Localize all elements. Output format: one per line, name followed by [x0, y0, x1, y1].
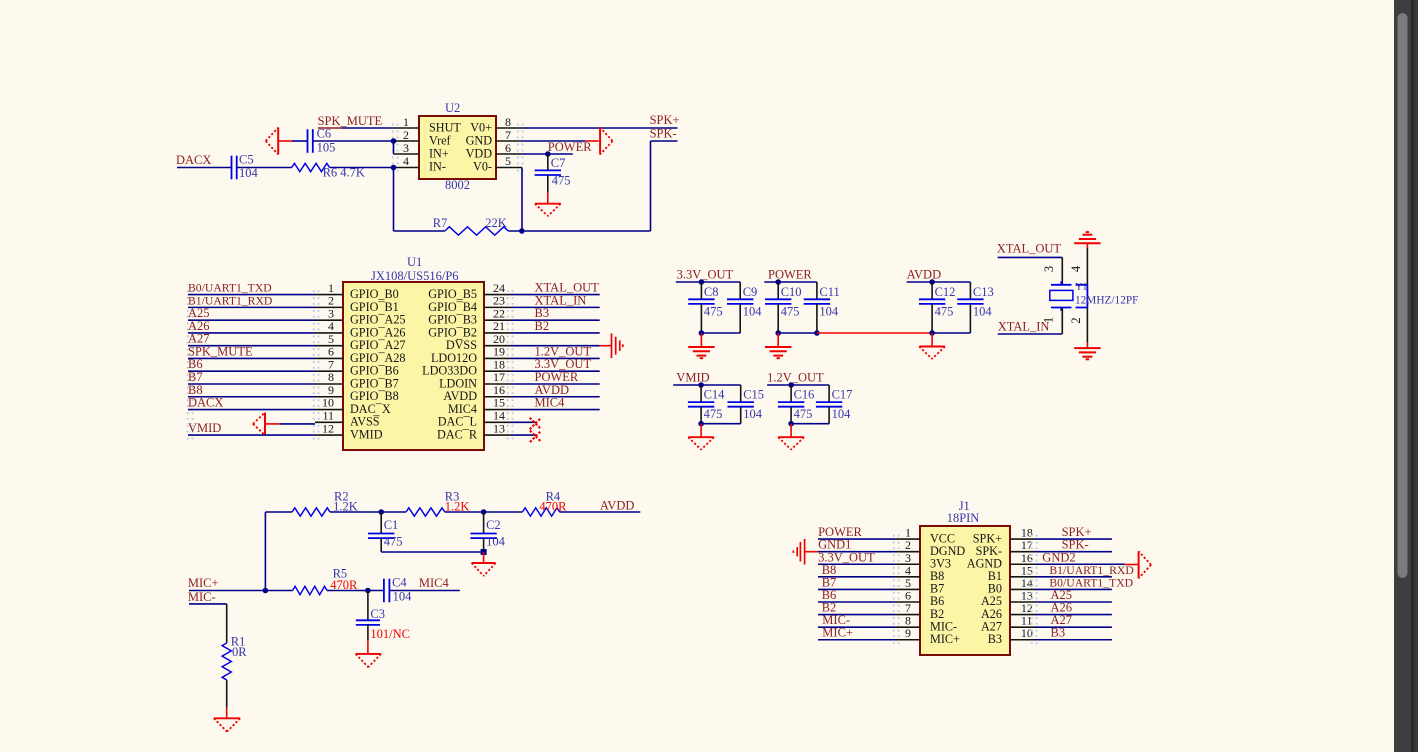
wire 3.3V_OUT rail [676, 281, 740, 283]
capacitor C12 [919, 282, 945, 333]
svg-text:C11: C11 [819, 285, 839, 299]
junction C14 bottom [698, 421, 704, 427]
svg-text:104: 104 [393, 590, 413, 604]
ground (earth below C10) [765, 333, 791, 358]
junction C8 bottom [699, 330, 705, 336]
svg-text:8002: 8002 [445, 178, 470, 192]
ground (earth below C8) [688, 333, 714, 358]
svg-text:VDD: VDD [466, 147, 493, 161]
resistor R5 [293, 586, 327, 594]
wire feedback up to SPK- [650, 141, 652, 231]
junction C11 bottom [814, 330, 820, 336]
ground (C7 triangle) [535, 192, 561, 216]
U2 left pin names [429, 121, 461, 174]
wire C1 to C2 bottom rail [381, 551, 483, 553]
wire POWER rail [764, 281, 817, 283]
no-connect X (U1 pin13) [530, 431, 542, 443]
svg-text:4: 4 [1069, 265, 1083, 272]
svg-text:10: 10 [1021, 626, 1033, 640]
wire R7 to SPK- feedback [508, 230, 650, 232]
svg-text:C9: C9 [743, 285, 758, 299]
svg-text:104: 104 [819, 304, 839, 318]
svg-text:V0-: V0- [473, 160, 492, 174]
J1 right pin numbers 18-10 [1021, 526, 1033, 641]
J1 left pin numbers 1-9 [905, 526, 911, 641]
wire crystal pin3 [1061, 257, 1063, 284]
wire 3.3V_OUT bottom rail [701, 332, 740, 334]
junction C10 top [775, 279, 781, 285]
wire R6 to U2 pin4 [330, 167, 394, 169]
svg-text:475: 475 [384, 535, 403, 549]
port arrow right (U2 pin7) [586, 128, 613, 155]
svg-text:475: 475 [704, 407, 723, 421]
junction R7 / U2 pin5 [519, 228, 525, 234]
no-connect X (U1 pin14) [530, 418, 542, 430]
svg-text:12MHZ/12PF: 12MHZ/12PF [1075, 295, 1138, 307]
svg-text:MIC-: MIC- [188, 590, 216, 604]
wire MIC- down to R1 [226, 604, 228, 643]
wire R4 to AVDD [560, 511, 641, 513]
svg-text:U1: U1 [407, 255, 422, 269]
wire POWER-bank to AVDD-bank (red) [817, 332, 932, 334]
svg-text:B2: B2 [535, 319, 550, 333]
wire R3 to C2 node [445, 511, 484, 513]
svg-text:MIC+: MIC+ [188, 576, 219, 590]
wire C6 to U2 pin2 [313, 140, 394, 142]
junction C8 top [699, 279, 705, 285]
wire 1.2V_OUT bottom rail [791, 423, 829, 425]
scrollbar thumb [1398, 13, 1408, 578]
ground (triangle below C12) [919, 333, 945, 359]
wire R2 to C1 node [330, 511, 381, 513]
svg-text:3: 3 [403, 141, 409, 155]
wire SPK- [651, 140, 678, 142]
J1 right wires [1035, 539, 1125, 640]
svg-text:C13: C13 [973, 285, 994, 299]
svg-text:104: 104 [832, 407, 852, 421]
svg-text:2: 2 [403, 128, 409, 142]
op-amp U2 body [419, 116, 496, 179]
port arrow left (VMID to C6) [266, 128, 292, 155]
svg-text:104: 104 [973, 304, 993, 318]
U1 right pin stubs [484, 295, 511, 435]
svg-text:C15: C15 [743, 388, 764, 402]
wire U1 pin11 [279, 423, 315, 425]
svg-text:475: 475 [552, 174, 571, 188]
J1 left pin stubs [895, 539, 920, 640]
svg-text:U2: U2 [445, 101, 460, 115]
wire to R4 [484, 511, 523, 513]
svg-text:GND: GND [466, 134, 493, 148]
U1 right pin numbers 24-13 [493, 281, 505, 435]
wire R1 to ground [226, 680, 228, 708]
junction C14 top [698, 382, 704, 388]
junction R2/R3/C1 [378, 509, 384, 515]
svg-text:475: 475 [794, 407, 813, 421]
svg-text:C5: C5 [239, 153, 254, 167]
U2 right pin names [466, 121, 493, 174]
junction at U2 pin2 [391, 138, 397, 144]
capacitor C7 [535, 154, 561, 192]
wire U2 pin5 down [521, 168, 523, 232]
capacitor C10 [765, 282, 791, 333]
wire R5 to C4 [327, 590, 384, 592]
svg-text:1: 1 [403, 115, 409, 129]
svg-text:R7: R7 [433, 216, 448, 230]
capacitor C9 [727, 282, 753, 333]
ground (earth above crystal) [1074, 232, 1100, 248]
svg-text:DAC¯R: DAC¯R [437, 427, 478, 441]
wire VMID rail [673, 384, 741, 386]
svg-text:POWER: POWER [548, 140, 592, 154]
svg-text:POWER: POWER [768, 267, 812, 281]
wire arrow to C6 [292, 140, 308, 142]
ground (triangle below C2) [472, 552, 496, 576]
svg-text:AVDD: AVDD [600, 499, 635, 513]
svg-text:22K: 22K [485, 216, 507, 230]
resistor R7 [445, 227, 509, 235]
svg-text:8: 8 [505, 115, 511, 129]
svg-text:C17: C17 [832, 388, 853, 402]
svg-text:C6: C6 [317, 127, 332, 141]
ground (triangle below R1) [214, 708, 240, 732]
svg-text:MIC4: MIC4 [535, 396, 566, 410]
U2 left pin numbers 1-4 [403, 115, 409, 168]
J1 right pin names [967, 531, 1002, 646]
U1 left wires rows 1-10 [188, 295, 315, 410]
svg-text:B3: B3 [988, 632, 1002, 646]
wire crystal case vertical [1086, 248, 1088, 285]
svg-text:105: 105 [317, 140, 336, 154]
svg-text:C12: C12 [935, 285, 956, 299]
svg-text:B1/UART1_RXD: B1/UART1_RXD [1049, 564, 1133, 577]
U1 left pin names [350, 287, 406, 441]
junction MIC+ branch [263, 588, 269, 594]
wire U2 pin7 [521, 140, 586, 142]
svg-text:AVDD: AVDD [907, 267, 942, 281]
wire SPK_MUTE to U2 pin1 [318, 127, 394, 129]
wire MIC- [189, 603, 227, 605]
svg-text:SHUT: SHUT [429, 121, 461, 135]
wire pin4 down to R7 [393, 168, 395, 232]
svg-text:9: 9 [905, 626, 911, 640]
wire to R2 [265, 511, 292, 513]
pin connection marks U1 [187, 290, 514, 439]
svg-text:C2: C2 [486, 518, 501, 532]
svg-text:VMID: VMID [350, 427, 383, 441]
svg-text:104: 104 [743, 304, 763, 318]
svg-text:18PIN: 18PIN [947, 511, 980, 525]
wire XTAL_OUT [998, 256, 1063, 258]
svg-text:475: 475 [935, 304, 954, 318]
svg-text:2: 2 [1069, 317, 1083, 323]
svg-text:MIC+: MIC+ [930, 632, 960, 646]
svg-text:C10: C10 [781, 285, 802, 299]
scrollbar dark strip [1411, 0, 1415, 752]
svg-text:C16: C16 [794, 388, 815, 402]
svg-text:C7: C7 [551, 156, 566, 170]
svg-text:475: 475 [704, 304, 723, 318]
junction at U2 pin4 [391, 165, 397, 171]
J1 left wires [818, 539, 895, 640]
svg-text:XTAL_IN: XTAL_IN [998, 320, 1050, 334]
port arrow right (J1 GND2 row) [1125, 551, 1151, 578]
J1 left pin names [930, 531, 965, 646]
svg-text:MIC4: MIC4 [419, 576, 450, 590]
svg-text:3: 3 [1042, 266, 1056, 272]
svg-text:104: 104 [743, 407, 763, 421]
capacitor C11 [804, 282, 830, 333]
svg-text:1.2V_OUT: 1.2V_OUT [767, 370, 824, 384]
junction R5/C3/C4 [365, 588, 371, 594]
junction C16 bottom [788, 421, 794, 427]
svg-text:13: 13 [493, 421, 505, 435]
U2 left pin stubs [394, 128, 420, 168]
wire 1.2V_OUT rail [767, 384, 829, 386]
capacitor C2 [470, 512, 496, 552]
U2 right pin numbers 8-5 [505, 115, 511, 168]
svg-text:12: 12 [322, 421, 334, 435]
capacitor C8 [688, 282, 714, 333]
svg-text:101/NC: 101/NC [370, 627, 410, 641]
svg-text:3.3V_OUT: 3.3V_OUT [677, 267, 734, 281]
svg-text:DACX: DACX [176, 153, 211, 167]
svg-text:104: 104 [486, 535, 506, 549]
svg-text:470R: 470R [539, 499, 567, 513]
svg-text:Y1: Y1 [1075, 282, 1087, 293]
junction U2 pin6 / C7 [545, 151, 551, 157]
svg-text:Vref: Vref [429, 134, 452, 148]
ground (GND1 sideways earth) [793, 539, 818, 565]
svg-text:SPK+: SPK+ [650, 113, 680, 127]
U1 right pin names [422, 287, 478, 441]
capacitor C16 [778, 385, 804, 424]
junction C16 top [788, 382, 794, 388]
junction R3/R4/C2 [481, 509, 487, 515]
svg-text:B0/UART1_TXD: B0/UART1_TXD [188, 282, 272, 295]
U1 left pin stubs [315, 295, 343, 435]
wire crystal pin1 [1061, 308, 1063, 335]
svg-text:VMID: VMID [676, 370, 709, 384]
svg-text:IN+: IN+ [429, 147, 449, 161]
scrollbar track [1394, 0, 1418, 752]
svg-text:XTAL_OUT: XTAL_OUT [997, 242, 1062, 256]
capacitor C17 [816, 385, 842, 424]
wire AVDD rail [907, 281, 971, 283]
svg-text:5: 5 [505, 154, 511, 168]
svg-text:1.2K: 1.2K [333, 499, 358, 513]
wire AVDD bottom rail [932, 332, 970, 334]
ground (triangle below C3) [356, 640, 381, 667]
wire MIC+ branch vertical [264, 512, 266, 591]
svg-text:IN-: IN- [429, 160, 446, 174]
capacitor C5 [232, 156, 237, 180]
wire DACX to C5 [177, 167, 232, 169]
ground (earth below crystal) [1074, 343, 1100, 360]
connector J1 body [920, 526, 1010, 655]
port arrow left (U1 pin11 AVSS) [253, 413, 279, 436]
svg-text:1.2K: 1.2K [445, 499, 470, 513]
resistor R4 [522, 508, 559, 516]
capacitor C1 [368, 512, 394, 552]
wire VMID bottom rail [701, 423, 741, 425]
resistor R2 [292, 508, 330, 516]
U1 right wires [511, 295, 600, 435]
resistor R1 [222, 643, 231, 680]
svg-text:DACX: DACX [188, 396, 223, 410]
resistor R6 [292, 163, 330, 171]
wire C5 to R6 [237, 167, 292, 169]
svg-text:C1: C1 [384, 518, 399, 532]
junction C12 top [929, 279, 935, 285]
resistor R3 [406, 508, 445, 516]
wire MIC+ [189, 590, 293, 592]
svg-text:0R: 0R [232, 645, 247, 659]
wire U2 pin6 POWER [521, 153, 573, 155]
wire POWER bottom rail [778, 332, 817, 334]
svg-text:C4: C4 [392, 576, 407, 590]
wire XTAL_IN [998, 333, 1063, 335]
pin connection marks U2 [392, 124, 524, 172]
capacitor C3 [356, 591, 380, 641]
wire pin2 to pin3 [393, 141, 395, 154]
crystal Y1 [1050, 281, 1088, 311]
svg-text:475: 475 [781, 304, 800, 318]
wire to R7 [394, 230, 445, 232]
capacitor C4 [384, 579, 390, 603]
junction C12 bottom [929, 330, 935, 336]
J1 right pin stubs [1010, 539, 1035, 640]
svg-text:VMID: VMID [188, 421, 221, 435]
wire U1 pin12 VMID [188, 434, 315, 436]
IC U1 body [343, 282, 484, 450]
wire U2 pin8 to SPK+ [521, 127, 678, 129]
U2 right pin stubs [496, 128, 522, 168]
ground (triangle below C16) [778, 424, 804, 450]
svg-text:7: 7 [505, 128, 511, 142]
svg-text:V0+: V0+ [470, 121, 492, 135]
svg-text:C8: C8 [704, 285, 719, 299]
U1 left pin numbers 1-12 [322, 281, 334, 435]
capacitor C6 [308, 129, 313, 153]
pin connection marks J1 [893, 535, 1038, 644]
capacitor C15 [728, 385, 754, 424]
capacitor C14 [688, 385, 714, 424]
wire to R3 [381, 511, 406, 513]
svg-text:4: 4 [403, 154, 409, 168]
capacitor C13 [957, 282, 983, 333]
junction C2 bottom [481, 549, 487, 555]
wire C4 to MIC4 [390, 590, 460, 592]
svg-text:6: 6 [505, 141, 511, 155]
junction C10 bottom [775, 330, 781, 336]
svg-text:JX108/US516/P6: JX108/US516/P6 [371, 269, 459, 283]
ground (U1 pin20 DVSS sideways earth) [600, 333, 623, 358]
scrollbar right band [1415, 0, 1418, 752]
ground (triangle below C14) [688, 424, 714, 450]
svg-text:C3: C3 [370, 607, 385, 621]
svg-text:C14: C14 [704, 388, 726, 402]
